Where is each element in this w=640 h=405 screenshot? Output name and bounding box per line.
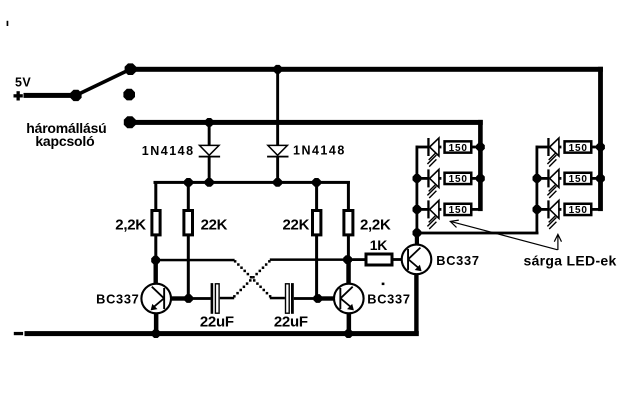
transistor Q3 BC337 xyxy=(402,245,432,275)
wire bus to R3 xyxy=(315,181,318,210)
wire resistor to right bus (bank 2 row 1) xyxy=(593,146,601,149)
transistor Q2 BC337 xyxy=(334,284,364,314)
LED LED12 (sarga/yellow) xyxy=(427,169,439,198)
wire left collector horizontal xyxy=(156,259,235,262)
svg-text:150: 150 xyxy=(449,174,468,185)
svg-text:22uF: 22uF xyxy=(274,313,308,330)
junction bottom rail / D1 xyxy=(205,118,214,127)
LED LED21 (sarga/yellow) xyxy=(547,138,559,167)
svg-text:150: 150 xyxy=(569,205,588,216)
wire top rail from switch top contact xyxy=(130,67,603,72)
resistor R4 2,2K xyxy=(344,211,353,235)
junction diode bus / R3 xyxy=(312,178,321,187)
junction right collector node xyxy=(343,255,352,264)
wire Q3 collector to LED node xyxy=(415,233,419,245)
wire LED13 to resistor xyxy=(439,208,442,211)
junction bank1 right bus row2 xyxy=(476,174,485,183)
svg-text:150: 150 xyxy=(569,174,588,185)
wire C2 to right base node xyxy=(294,297,318,300)
junction diode bus / D1 xyxy=(205,178,214,187)
switch pole contact xyxy=(70,90,81,101)
tick mark top-left xyxy=(7,21,9,26)
wire right bus of LED bank 2 (from top rail) xyxy=(598,67,603,211)
wire diode D2 to base bus xyxy=(276,158,279,183)
wire bus to LED22 xyxy=(536,177,549,180)
svg-text:BC337: BC337 xyxy=(436,253,479,268)
svg-text:kapcsoló: kapcsoló xyxy=(35,133,94,149)
svg-text:150: 150 xyxy=(449,143,468,154)
svg-text:22K: 22K xyxy=(201,217,228,234)
wire bus to LED13 xyxy=(416,208,429,211)
wire resistor to right bus (bank 2 row 3) xyxy=(593,208,601,211)
svg-text:sárga LED-ek: sárga LED-ek xyxy=(524,252,617,268)
svg-text:5V: 5V xyxy=(15,75,31,89)
junction diode bus / D2 xyxy=(273,178,282,187)
svg-text:22uF: 22uF xyxy=(200,313,234,330)
wire 1K to Q3 base xyxy=(394,258,402,261)
wire Q2 base xyxy=(318,296,335,300)
transistor Q1 BC337 xyxy=(141,284,171,314)
wire LED cathode bus bank 2 (left bus) xyxy=(536,146,539,233)
wire Q1 emitter to ground xyxy=(154,313,159,333)
wire right collector horizontal xyxy=(270,258,348,261)
junction bank2 left bus row2 xyxy=(533,174,542,183)
junction bank2 left bus row3 xyxy=(533,205,542,214)
svg-text:2,2K: 2,2K xyxy=(360,217,391,234)
junction left collector node xyxy=(151,256,160,265)
wire resistor to right bus (bank 1 row 2) xyxy=(473,177,481,180)
capacitor C1 22uF xyxy=(211,283,219,314)
wire R4 to right collector node xyxy=(347,235,350,260)
diode D1 1N4148 xyxy=(199,145,220,157)
junction bank1 right bus row1 xyxy=(476,143,485,152)
wire bottom rail to diode D1 xyxy=(208,122,211,145)
resistor R1 2,2K xyxy=(152,211,160,235)
wire LED cathode bus bank 1 (left bus) xyxy=(416,146,419,235)
wire bus to LED12 xyxy=(416,177,429,180)
wire resistor to right bus (bank 1 row 3) xyxy=(473,208,481,211)
resistor 150 ohm (bank 2 row 1) xyxy=(565,141,592,152)
wire bottom rail from switch bottom contact xyxy=(130,120,483,125)
wire resistor top bus xyxy=(154,181,350,184)
wire bus to R2 xyxy=(187,181,190,210)
wire Q1 base xyxy=(171,296,189,300)
resistor 150 ohm (bank 2 row 3) xyxy=(565,204,592,215)
wire resistor to right bus (bank 1 row 1) xyxy=(473,146,481,149)
junction bank2 right bus row1 xyxy=(596,143,605,152)
switch lever xyxy=(76,71,127,96)
switch middle contact (off position) xyxy=(123,89,135,101)
wire LED22 to resistor xyxy=(559,177,562,180)
annotation arrow to bank1 LED xyxy=(450,220,557,250)
svg-text:BC337: BC337 xyxy=(96,292,139,307)
junction top rail / D2 xyxy=(273,65,282,74)
LED LED22 (sarga/yellow) xyxy=(547,169,559,198)
wire staircase right collector to C1 (dotted diagonal) xyxy=(233,260,270,297)
wire top rail to diode D2 (crosses bottom rail) xyxy=(276,68,279,145)
wire LED23 to resistor xyxy=(559,208,562,211)
junction right base node xyxy=(313,294,322,303)
wire bus corner down to R1 xyxy=(154,181,157,210)
resistor R2 22K xyxy=(184,211,193,235)
junction Q2 emitter / ground xyxy=(344,329,353,338)
svg-text:150: 150 xyxy=(449,205,468,216)
resistor 150 ohm (bank 2 row 2) xyxy=(565,173,592,184)
wire from + terminal to switch pole xyxy=(24,93,77,98)
switch top contact xyxy=(125,63,137,75)
resistor R3 22K xyxy=(313,211,321,235)
plus terminal of 5V supply xyxy=(14,91,23,100)
wire diode D1 to base bus xyxy=(208,158,211,183)
LED LED11 (sarga/yellow) xyxy=(427,138,439,167)
wire R3 to right base node (crosses collector wire) xyxy=(315,235,318,297)
stray ink dot xyxy=(382,283,385,286)
junction Q1 emitter / ground xyxy=(152,329,161,338)
svg-text:1N4148: 1N4148 xyxy=(142,144,195,158)
LED LED23 (sarga/yellow) xyxy=(547,200,559,229)
wire bus corner down to R4 xyxy=(347,181,350,210)
svg-text:1K: 1K xyxy=(370,237,387,253)
svg-text:1N4148: 1N4148 xyxy=(293,144,346,158)
wire resistor to right bus (bank 2 row 2) xyxy=(593,177,601,180)
resistor R5 1K xyxy=(366,254,392,265)
svg-text:2,2K: 2,2K xyxy=(115,217,146,234)
svg-text:BC337: BC337 xyxy=(367,292,410,307)
wire LED12 to resistor xyxy=(439,177,442,180)
junction bank2 right bus row2 xyxy=(596,174,605,183)
wire right collector node to Q2 collector xyxy=(346,259,351,285)
resistor 150 ohm (bank 1 row 3) xyxy=(445,204,472,215)
junction diode bus / R2 xyxy=(184,178,193,187)
minus terminal of supply xyxy=(14,332,23,335)
junction left base node xyxy=(184,294,193,303)
junction Q3 collector / LED node xyxy=(413,229,422,238)
ground rail wire xyxy=(25,331,419,336)
resistor 150 ohm (bank 1 row 2) xyxy=(445,173,472,184)
wire LED node horizontal to bank 2 xyxy=(416,232,539,235)
LED LED13 (sarga/yellow) xyxy=(427,200,439,229)
junction bank1 left bus row2 xyxy=(413,174,422,183)
wire bus to LED11 xyxy=(416,146,429,149)
svg-text:150: 150 xyxy=(569,143,588,154)
wire Q2 emitter to ground xyxy=(347,313,352,333)
junction bank1 left bus row3 xyxy=(413,205,422,214)
wire left collector node to Q1 collector xyxy=(154,260,158,284)
capacitor C2 22uF xyxy=(286,283,294,314)
wire staircase to C2 xyxy=(270,297,285,300)
wire R1 to left collector node xyxy=(154,235,157,261)
wire left base node to C1 xyxy=(189,297,211,300)
wire Q3 emitter down to ground rail xyxy=(414,274,418,334)
wire right collector node to 1K xyxy=(348,258,365,261)
wire bus to LED21 xyxy=(536,146,549,149)
resistor 150 ohm (bank 1 row 1) xyxy=(445,141,472,152)
wire R2 to left base node (crosses collector wire) xyxy=(187,235,190,297)
wire LED11 to resistor xyxy=(439,146,442,149)
annotation arrow to bank2 LED xyxy=(554,234,561,250)
wire LED21 to resistor xyxy=(559,146,562,149)
svg-text:22K: 22K xyxy=(283,217,310,234)
wire staircase left collector to C2 (dotted diagonal) xyxy=(234,260,271,297)
wire bus to LED23 xyxy=(536,208,549,211)
diode D2 1N4148 xyxy=(267,145,288,157)
switch bottom contact xyxy=(124,116,136,128)
wire C1 to staircase xyxy=(220,297,234,300)
wire right bus of LED bank 1 (from bottom rail) xyxy=(478,120,483,211)
